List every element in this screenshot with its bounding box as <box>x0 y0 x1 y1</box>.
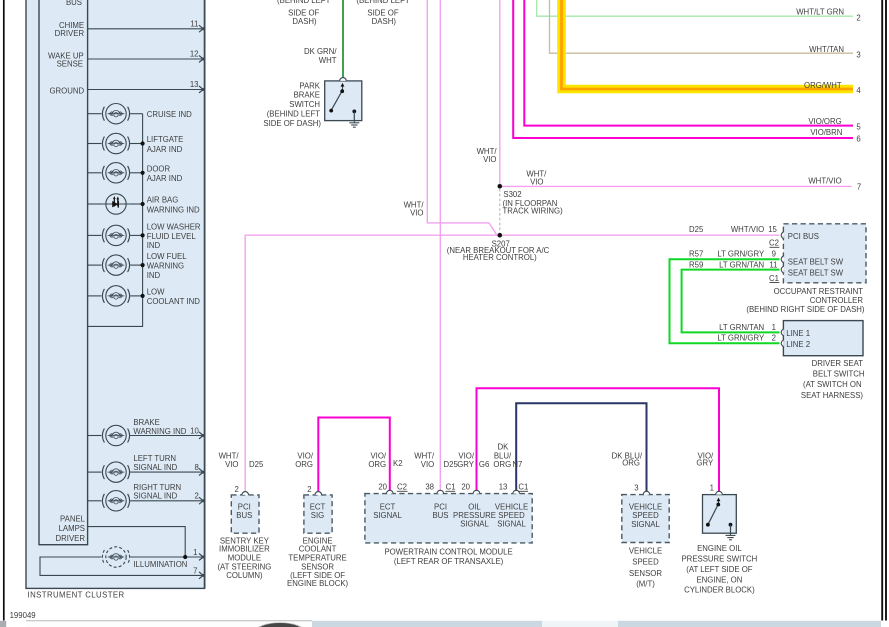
svg-text:LT GRN/GRY: LT GRN/GRY <box>717 334 765 343</box>
svg-text:TRACK WIRING): TRACK WIRING) <box>503 206 564 215</box>
svg-text:BELT SWITCH: BELT SWITCH <box>813 369 865 378</box>
svg-text:11: 11 <box>190 19 198 28</box>
svg-text:SWITCH: SWITCH <box>289 100 320 109</box>
page right border <box>882 0 886 621</box>
wire WHT/VIO sentry key to S207 to ORC pin 15 <box>245 235 779 491</box>
svg-text:VIO: VIO <box>421 460 434 469</box>
svg-text:TEMPERATURE: TEMPERATURE <box>288 553 346 562</box>
splice S207 <box>498 233 503 238</box>
svg-text:BRAKE: BRAKE <box>133 418 159 427</box>
svg-text:WHT/VIO: WHT/VIO <box>808 177 841 186</box>
svg-text:D25: D25 <box>249 460 264 469</box>
cluster driver inner box <box>39 0 88 545</box>
PCM pin 13 C1 VEHICLE SPEED SIGNAL <box>495 483 529 529</box>
svg-text:AJAR IND: AJAR IND <box>147 174 183 183</box>
svg-text:IND: IND <box>147 241 161 250</box>
svg-text:SEAT HARNESS): SEAT HARNESS) <box>801 391 864 400</box>
svg-text:IND: IND <box>147 271 161 280</box>
pin 15 D25 WHT/VIO <box>689 225 784 239</box>
svg-text:(BEHIND LEFT: (BEHIND LEFT <box>267 110 321 119</box>
svg-text:ORG: ORG <box>493 460 511 469</box>
label DK BLU/ORG (VSS) <box>612 452 643 468</box>
svg-text:SIGNAL IND: SIGNAL IND <box>133 463 177 472</box>
svg-text:DRIVER: DRIVER <box>55 29 85 38</box>
svg-text:BUS: BUS <box>236 511 252 520</box>
wire VIO/ORG ECT sensor to PCM <box>318 418 390 492</box>
svg-text:WARNING IND: WARNING IND <box>147 205 200 214</box>
svg-text:DRIVER: DRIVER <box>56 534 86 543</box>
svg-text:2: 2 <box>235 485 239 494</box>
instrument cluster box <box>26 0 205 588</box>
svg-text:VIO: VIO <box>225 460 238 469</box>
svg-text:D25: D25 <box>689 225 704 234</box>
svg-text:1: 1 <box>772 323 776 332</box>
label powertrain control module <box>384 547 512 566</box>
label park brake switch <box>263 81 321 128</box>
wire WHT/LT GRN pin 2 <box>537 0 861 22</box>
engine coolant temperature sensor box <box>304 485 332 533</box>
svg-text:15: 15 <box>768 225 777 234</box>
label LOW FUEL WARNING IND <box>147 252 188 280</box>
splice S302 <box>498 184 503 189</box>
connector C2 label <box>769 239 779 248</box>
svg-text:7: 7 <box>857 182 861 191</box>
svg-text:SIGNAL: SIGNAL <box>373 511 402 520</box>
svg-text:13: 13 <box>499 483 508 492</box>
svg-text:2: 2 <box>772 334 776 343</box>
label LEFT TURN SIGNAL IND pin 8 <box>133 454 198 472</box>
label vehicle speed sensor <box>629 547 663 589</box>
svg-text:(BEHIND LEFT: (BEHIND LEFT <box>356 0 410 5</box>
svg-text:199049: 199049 <box>10 611 36 620</box>
wire pin 13 ground <box>88 80 205 93</box>
label engine coolant temperature sensor <box>287 537 348 589</box>
svg-text:13: 13 <box>190 80 199 89</box>
label VIO/ORG K2 (PCM) <box>368 452 402 470</box>
lamp LIFTGATE AJAR IND <box>88 133 145 153</box>
svg-text:20: 20 <box>461 483 470 492</box>
lamp CRUISE IND <box>88 104 143 124</box>
wire ORG/WHT pin 4 (thick) <box>562 0 862 95</box>
svg-text:4: 4 <box>856 86 861 95</box>
svg-text:(BEHIND LEFT: (BEHIND LEFT <box>277 0 331 5</box>
svg-text:AJAR IND: AJAR IND <box>147 145 183 154</box>
svg-text:SIGNAL: SIGNAL <box>497 520 526 529</box>
svg-text:VIO: VIO <box>483 155 496 164</box>
wire VIO/ORG pin 5 <box>524 0 861 132</box>
svg-text:LIFTGATE: LIFTGATE <box>147 135 184 144</box>
svg-text:DASH): DASH) <box>372 17 397 26</box>
lamp RIGHT TURN SIGNAL IND <box>88 491 205 511</box>
label WHT/VIO (right of S302) <box>526 169 547 186</box>
svg-text:LOW FUEL: LOW FUEL <box>147 252 188 261</box>
wire VIO/GRY PCM to oil pressure switch <box>477 388 720 491</box>
page left border <box>3 0 5 621</box>
label VIO/ORG (ECT sensor) <box>295 452 314 470</box>
svg-text:LT GRN/GRY: LT GRN/GRY <box>717 249 765 258</box>
svg-text:5: 5 <box>856 123 861 132</box>
svg-text:2: 2 <box>307 485 311 494</box>
svg-text:(LEFT REAR OF TRANSAXLE): (LEFT REAR OF TRANSAXLE) <box>394 557 504 566</box>
label occupant restraint controller <box>746 287 865 314</box>
svg-text:AIR BAG: AIR BAG <box>147 196 179 205</box>
driver seat belt switch box <box>783 321 863 356</box>
svg-text:C2: C2 <box>769 239 779 248</box>
lamp LOW FUEL WARNING IND <box>88 255 145 275</box>
cut-off label (behind left side of dash) #1 <box>277 0 331 26</box>
svg-text:PANEL: PANEL <box>60 514 86 523</box>
wire WHT/VIO from top through elbow to S207 <box>427 0 500 235</box>
label BRAKE WARNING IND pin 10 <box>133 418 199 436</box>
vehicle speed sensor box <box>622 484 669 543</box>
dashed link S302 to S207 <box>499 189 501 233</box>
pin name PCI BUS <box>236 503 252 520</box>
svg-text:POWERTRAIN CONTROL MODULE: POWERTRAIN CONTROL MODULE <box>384 547 512 556</box>
label S302 <box>503 190 564 215</box>
svg-text:CRUISE IND: CRUISE IND <box>147 110 192 119</box>
svg-text:LINE 2: LINE 2 <box>786 340 810 349</box>
svg-text:20: 20 <box>378 483 387 492</box>
label LOW COOLANT IND <box>147 288 201 307</box>
svg-text:3: 3 <box>856 50 860 59</box>
park brake switch S1 <box>325 78 362 128</box>
svg-text:VIO/BRN: VIO/BRN <box>810 128 842 137</box>
svg-text:WHT/LT GRN: WHT/LT GRN <box>796 8 844 17</box>
label WHT/VIO D25 (sentry) <box>219 452 264 470</box>
ORC pin names <box>788 232 844 277</box>
pin LINE 1 <box>719 323 810 338</box>
svg-text:WHT: WHT <box>319 56 337 65</box>
occupant restraint controller box <box>783 224 866 283</box>
svg-text:LAMPS: LAMPS <box>59 524 85 533</box>
label DOOR AJAR IND <box>147 165 183 184</box>
svg-text:WHT/TAN: WHT/TAN <box>809 45 844 54</box>
wake up sense label <box>48 52 84 69</box>
svg-text:PCI BUS: PCI BUS <box>788 232 819 241</box>
wire panel lamps driver to illumination node <box>88 527 186 557</box>
svg-text:DOOR: DOOR <box>147 165 171 174</box>
svg-text:SIGNAL: SIGNAL <box>631 520 660 529</box>
bottom toolbar strip <box>0 621 881 627</box>
wire illumination pin 7 <box>40 557 205 579</box>
pin LINE 2 <box>717 334 810 349</box>
svg-text:SENSE: SENSE <box>57 59 83 68</box>
svg-text:ENGINE BLOCK): ENGINE BLOCK) <box>287 579 348 588</box>
wire pin 11 chime driver <box>88 19 205 32</box>
wire pin 12 wake up sense <box>88 50 205 63</box>
svg-text:R57: R57 <box>689 249 703 258</box>
svg-text:LEFT TURN: LEFT TURN <box>133 454 176 463</box>
svg-text:COLUMN): COLUMN) <box>226 571 263 580</box>
svg-text:SIGNAL IND: SIGNAL IND <box>133 492 177 501</box>
svg-text:C1: C1 <box>446 483 456 492</box>
lamp DOOR AJAR IND <box>88 163 145 183</box>
svg-text:ORG: ORG <box>622 458 640 467</box>
wire LT GRN/GRY R57 pin 9 <box>670 249 784 343</box>
lamp LOW COOLANT IND <box>88 286 145 306</box>
svg-text:LOW: LOW <box>147 288 165 297</box>
svg-text:ENGINE, ON: ENGINE, ON <box>696 576 742 585</box>
pin name ECT SIG <box>310 503 326 520</box>
svg-text:MODULE: MODULE <box>228 553 261 562</box>
svg-text:11: 11 <box>769 260 777 269</box>
label CRUISE IND <box>147 110 192 119</box>
label engine oil pressure switch <box>681 544 757 595</box>
wire WHT/VIO from top to PCM PCI BUS <box>439 0 441 491</box>
svg-text:LINE 1: LINE 1 <box>786 329 810 338</box>
svg-text:VIO: VIO <box>410 209 423 218</box>
label LOW WASHER FLUID LEVEL IND <box>147 223 201 251</box>
svg-text:G6: G6 <box>479 460 489 469</box>
svg-text:RIGHT TURN: RIGHT TURN <box>133 483 181 492</box>
svg-text:WARNING: WARNING <box>147 262 184 271</box>
lamp LEFT TURN SIGNAL IND <box>88 462 205 482</box>
svg-text:DK: DK <box>497 443 509 452</box>
svg-text:BUS: BUS <box>432 511 448 520</box>
pin name VEHICLE SPEED SIGNAL <box>629 502 662 529</box>
connector C1 label <box>769 274 779 283</box>
svg-text:SIGNAL: SIGNAL <box>460 520 489 529</box>
svg-text:12: 12 <box>190 50 199 59</box>
svg-text:BUS: BUS <box>66 0 82 7</box>
sentry key immobilizer module box <box>231 485 259 533</box>
svg-text:CYLINDER BLOCK): CYLINDER BLOCK) <box>684 586 755 595</box>
label sentry key immobilizer module <box>217 537 271 580</box>
svg-text:GROUND: GROUND <box>49 86 84 95</box>
cut-off label (behind left side of dash) #2 <box>356 0 410 26</box>
svg-text:10: 10 <box>190 426 199 435</box>
label WHT/VIO D25 (PCM) <box>414 452 458 470</box>
svg-text:C1: C1 <box>769 274 779 283</box>
logo blob (cut off) <box>258 623 302 627</box>
label WHT/VIO (top wire) <box>477 147 498 164</box>
wire DK GRN/WHT to park brake switch <box>342 0 344 78</box>
svg-text:LT GRN/TAN: LT GRN/TAN <box>719 323 764 332</box>
svg-text:1: 1 <box>710 484 714 493</box>
svg-text:ORG: ORG <box>368 460 386 469</box>
wire VIO/BRN pin 6 <box>513 0 861 143</box>
svg-text:D25: D25 <box>444 460 459 469</box>
label VIO/GRY (oil switch) <box>696 452 714 468</box>
lamp bus wire (right rail) <box>88 114 143 327</box>
svg-text:BRAKE: BRAKE <box>294 91 320 100</box>
PCM pin 20 OIL PRESSURE SIGNAL <box>453 483 496 529</box>
svg-text:GRY: GRY <box>457 460 475 469</box>
chime driver label <box>55 21 85 38</box>
svg-text:GRY: GRY <box>696 458 714 467</box>
svg-text:C2: C2 <box>397 483 407 492</box>
wire illumination pin 1 <box>130 548 205 560</box>
label DK BLU/ORG N7 (PCM) <box>493 443 522 470</box>
svg-text:ENGINE OIL: ENGINE OIL <box>697 544 742 553</box>
svg-text:COOLANT IND: COOLANT IND <box>147 297 201 306</box>
svg-text:SEAT BELT SW: SEAT BELT SW <box>788 269 844 278</box>
svg-text:DK GRN/: DK GRN/ <box>304 47 337 56</box>
svg-text:INSTRUMENT CLUSTER: INSTRUMENT CLUSTER <box>28 591 125 600</box>
svg-text:(AT LEFT SIDE OF: (AT LEFT SIDE OF <box>686 565 753 574</box>
lamp ILLUMINATION <box>102 547 129 567</box>
svg-text:LT GRN/TAN: LT GRN/TAN <box>719 260 764 269</box>
wire DK BLU/ORG PCM to vehicle speed sensor <box>516 403 646 491</box>
svg-text:C1: C1 <box>518 483 528 492</box>
svg-text:(AT SWITCH ON: (AT SWITCH ON <box>803 380 862 389</box>
svg-text:VEHICLE: VEHICLE <box>629 502 662 511</box>
label DK GRN/WHT <box>304 47 337 65</box>
svg-text:VIO/ORG: VIO/ORG <box>808 117 841 126</box>
svg-text:WHT/VIO: WHT/VIO <box>731 225 764 234</box>
wire WHT/TAN pin 3 <box>550 0 861 59</box>
svg-text:7: 7 <box>193 566 197 575</box>
lamp AIR BAG WARNING IND <box>88 194 145 214</box>
label VIO/GRY G6 (PCM) <box>457 452 489 470</box>
wire LT GRN/TAN R59 pin 11 <box>682 260 784 332</box>
powertrain control module box <box>365 494 532 543</box>
svg-text:2: 2 <box>856 13 860 22</box>
svg-text:(M/T): (M/T) <box>636 580 655 589</box>
svg-text:S302: S302 <box>503 190 521 199</box>
svg-text:SENSOR: SENSOR <box>629 569 662 578</box>
wire WHT/VIO pin 7 from S302 <box>500 177 861 192</box>
wire WHT/VIO from top to S302 <box>499 0 501 185</box>
label RIGHT TURN SIGNAL IND pin 2 <box>133 483 198 501</box>
panel lamps driver label <box>56 514 86 543</box>
svg-text:OCCUPANT RESTRAINT: OCCUPANT RESTRAINT <box>774 287 864 296</box>
svg-text:3: 3 <box>634 484 638 493</box>
svg-text:2: 2 <box>194 492 198 501</box>
svg-text:38: 38 <box>425 483 434 492</box>
svg-text:6: 6 <box>856 134 860 143</box>
svg-text:CONTROLLER: CONTROLLER <box>810 296 864 305</box>
PCM pin 38 C1 PCI BUS <box>425 483 455 521</box>
svg-text:9: 9 <box>772 249 776 258</box>
PCM pin 20 C2 ECT SIGNAL <box>373 483 407 521</box>
svg-text:SEAT BELT SW: SEAT BELT SW <box>788 257 844 266</box>
label WHT/VIO (elbow wire) <box>404 201 425 218</box>
svg-text:SIDE OF DASH): SIDE OF DASH) <box>263 119 321 128</box>
svg-text:1: 1 <box>193 548 197 557</box>
svg-text:PRESSURE SWITCH: PRESSURE SWITCH <box>681 555 757 564</box>
svg-text:8: 8 <box>194 463 198 472</box>
svg-text:DASH): DASH) <box>292 17 317 26</box>
svg-text:HEATER CONTROL): HEATER CONTROL) <box>463 253 537 262</box>
svg-text:R59: R59 <box>689 260 703 269</box>
svg-text:VIO: VIO <box>530 177 543 186</box>
svg-text:VEHICLE: VEHICLE <box>629 547 662 556</box>
label S207 <box>447 240 550 262</box>
label LIFTGATE AJAR IND <box>147 135 184 154</box>
svg-text:SPEED: SPEED <box>632 511 659 520</box>
svg-text:ILLUMINATION: ILLUMINATION <box>133 560 187 569</box>
svg-text:DRIVER SEAT: DRIVER SEAT <box>812 359 864 368</box>
svg-text:ORG: ORG <box>295 460 313 469</box>
svg-text:(BEHIND RIGHT SIDE OF DASH): (BEHIND RIGHT SIDE OF DASH) <box>746 305 865 314</box>
svg-text:FLUID LEVEL: FLUID LEVEL <box>147 232 197 241</box>
svg-text:WARNING IND: WARNING IND <box>133 427 186 436</box>
lamp LOW WASHER FLUID LEVEL IND <box>88 225 145 245</box>
lamp BRAKE WARNING IND <box>88 425 205 445</box>
svg-text:ORG/WHT: ORG/WHT <box>804 81 842 90</box>
label AIR BAG WARNING IND <box>147 196 200 215</box>
svg-text:SPEED: SPEED <box>632 557 659 566</box>
label driver seat belt switch <box>801 359 865 400</box>
engine oil pressure switch box <box>703 484 737 540</box>
svg-text:K2: K2 <box>393 459 403 468</box>
svg-text:PARK: PARK <box>299 81 320 90</box>
svg-text:SIG: SIG <box>311 511 324 520</box>
svg-text:LOW WASHER: LOW WASHER <box>147 223 201 232</box>
svg-text:N7: N7 <box>512 460 522 469</box>
